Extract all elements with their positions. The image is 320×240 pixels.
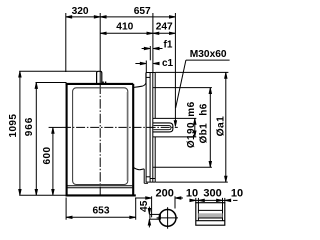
dimension 10 right bbox=[223, 198, 238, 203]
svg-text:320: 320 bbox=[72, 6, 89, 17]
tapped hole M30 outline bbox=[153, 126, 171, 130]
channel inner top line bbox=[198, 209, 222, 211]
dimension 600 line bbox=[52, 127, 55, 195]
flange rim notch bottom bbox=[150, 178, 155, 180]
extension line flange-face top bbox=[152, 13, 154, 73]
dimension 1095 line bbox=[19, 71, 22, 195]
dimension 966 line bbox=[35, 83, 38, 196]
dimension 247 line bbox=[153, 32, 176, 35]
flange plate verticals bbox=[146, 73, 155, 183]
circle crosshair vertical bbox=[167, 207, 169, 229]
channel gray band bbox=[198, 213, 222, 218]
svg-text:c1: c1 bbox=[162, 58, 174, 69]
channel band bottom line bbox=[198, 217, 222, 219]
dimension D190 extension top (spigot top) bbox=[153, 117, 196, 119]
flange bolt hole bottom bbox=[146, 176, 150, 178]
channel lower line bbox=[196, 220, 225, 222]
svg-text:600: 600 bbox=[42, 147, 53, 165]
baseline extension bottom-left bbox=[19, 194, 66, 196]
svg-text:10: 10 bbox=[231, 188, 243, 200]
dimension 300 bbox=[198, 198, 222, 203]
body inner rounded rectangle bbox=[73, 88, 128, 185]
extension line shaft-end / M30 leader vertical bbox=[174, 13, 176, 122]
bell bottom step vertical bbox=[143, 169, 145, 183]
dimension 657 line bbox=[100, 16, 175, 19]
dimension c1 bbox=[135, 61, 159, 73]
bell housing top outline bbox=[134, 73, 146, 88]
dimension Da1 extension bottom bbox=[156, 181, 228, 183]
svg-text:10: 10 bbox=[186, 188, 198, 200]
body bottom lines bbox=[67, 185, 132, 187]
M30x60 underline bbox=[186, 59, 230, 61]
dimension Db1 extension bottom bbox=[153, 166, 212, 168]
extension line 1095 top bbox=[19, 70, 96, 72]
centerline horizontal (shaft axis) bbox=[49, 126, 62, 128]
channel section view outer bbox=[196, 203, 225, 226]
flange bottom edge bbox=[146, 181, 156, 183]
extension line body-left top bbox=[65, 13, 67, 72]
svg-text:45: 45 bbox=[139, 200, 150, 212]
svg-text:Ø190 m6: Ø190 m6 bbox=[186, 101, 197, 148]
dimension D190 extension bottom (spigot bottom) bbox=[153, 136, 196, 138]
weld dots right of boss bbox=[102, 81, 106, 83]
M30x60 leader slant bbox=[176, 60, 186, 108]
bell housing bottom outline bbox=[134, 168, 145, 170]
dimension Db1 extension top bbox=[153, 87, 212, 89]
extension line 966 top bbox=[36, 82, 67, 84]
key block bbox=[150, 214, 161, 219]
dimension f1 bbox=[142, 46, 163, 60]
svg-text:1095: 1095 bbox=[8, 114, 19, 138]
extension line 653 right bbox=[135, 198, 137, 220]
dimension 410 line bbox=[100, 32, 153, 35]
channel inner walls bbox=[197, 203, 199, 221]
svg-text:Øb1 h6: Øb1 h6 bbox=[199, 103, 210, 143]
dimension 45 bbox=[148, 207, 151, 228]
svg-text:Øa1: Øa1 bbox=[215, 116, 226, 137]
svg-text:200: 200 bbox=[156, 187, 174, 199]
dimension Da1 line bbox=[225, 72, 228, 182]
dimension D190 line bbox=[194, 118, 197, 136]
shaft end view circle bbox=[159, 210, 176, 227]
extension line 653 left bbox=[65, 198, 67, 220]
svg-text:410: 410 bbox=[116, 22, 133, 33]
svg-text:M30x60: M30x60 bbox=[190, 49, 227, 60]
svg-text:247: 247 bbox=[156, 22, 173, 33]
dimension Da1 extension top bbox=[155, 71, 228, 73]
svg-text:300: 300 bbox=[203, 188, 221, 200]
svg-text:966: 966 bbox=[24, 117, 35, 136]
dimension 200 bbox=[135, 196, 183, 217]
inner rect gray edge bbox=[126, 92, 128, 181]
circle crosshair horizontal bbox=[157, 217, 178, 219]
svg-text:653: 653 bbox=[93, 206, 110, 217]
centerline vertical (eyebolt axis) bbox=[99, 13, 101, 85]
dimension 320 line bbox=[66, 16, 100, 19]
flange bolt hole top bbox=[146, 76, 150, 78]
eyebolt boss on top bbox=[97, 71, 102, 83]
dimension 10 left bbox=[190, 198, 199, 203]
bell bottom step horizontal bbox=[144, 182, 148, 184]
body outline (housing) bbox=[66, 83, 136, 196]
flange top edge bbox=[146, 72, 155, 74]
M30 leader arrow bbox=[174, 121, 177, 127]
dimension Db1 line bbox=[209, 88, 212, 168]
svg-text:657: 657 bbox=[134, 6, 151, 17]
dimension 653 line bbox=[66, 216, 136, 219]
svg-text:f1: f1 bbox=[164, 40, 173, 51]
shaft outline bbox=[153, 123, 173, 132]
